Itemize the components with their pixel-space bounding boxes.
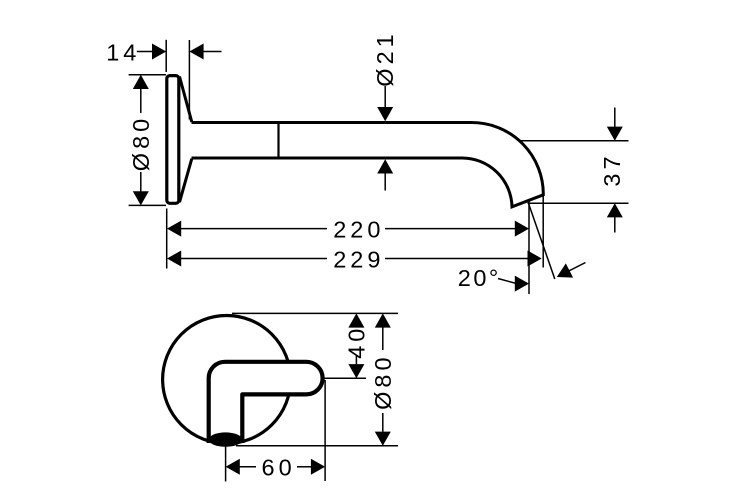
svg-text:Ø80: Ø80 [128, 115, 154, 171]
svg-text:Ø21: Ø21 [372, 30, 398, 86]
svg-text:14: 14 [106, 39, 140, 65]
svg-text:37: 37 [599, 152, 625, 186]
svg-text:60: 60 [262, 455, 296, 481]
svg-text:220: 220 [333, 217, 384, 243]
svg-text:40: 40 [343, 325, 369, 359]
svg-text:229: 229 [333, 247, 384, 273]
svg-text:20°: 20° [458, 265, 501, 291]
svg-text:Ø80: Ø80 [370, 353, 396, 409]
